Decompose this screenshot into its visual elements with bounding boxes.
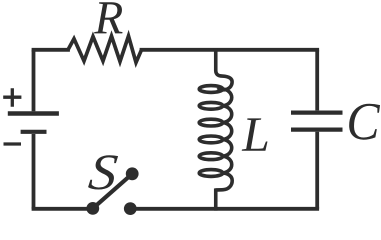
label R	[94, 2, 122, 33]
resistor R zigzag	[68, 36, 142, 63]
label C	[349, 104, 380, 140]
switch lever arm	[93, 174, 132, 209]
inductor L coil with leads	[199, 48, 232, 211]
label L	[242, 118, 268, 150]
capacitor bottom plate	[291, 128, 343, 132]
wire: left vertical lower (battery bottom lead)	[32, 134, 36, 209]
wire: top right segment	[142, 48, 318, 52]
wire: left vertical upper (battery top lead)	[32, 50, 36, 112]
capacitor top plate	[291, 110, 343, 114]
switch left contact dot	[86, 202, 99, 215]
wire: top left segment	[34, 48, 69, 52]
wire: right vertical lower (capacitor bottom lead)	[315, 132, 319, 209]
minus sign label	[4, 142, 22, 145]
wire: bottom left segment	[34, 207, 93, 211]
plus sign label	[3, 88, 21, 107]
wire: bottom right segment	[130, 207, 317, 211]
battery positive plate	[8, 111, 59, 115]
label S	[88, 155, 118, 189]
switch lever tip dot	[126, 167, 139, 180]
switch right contact dot	[124, 202, 137, 215]
battery negative plate	[21, 130, 47, 134]
wire: right vertical upper (capacitor top lead)	[315, 50, 319, 111]
